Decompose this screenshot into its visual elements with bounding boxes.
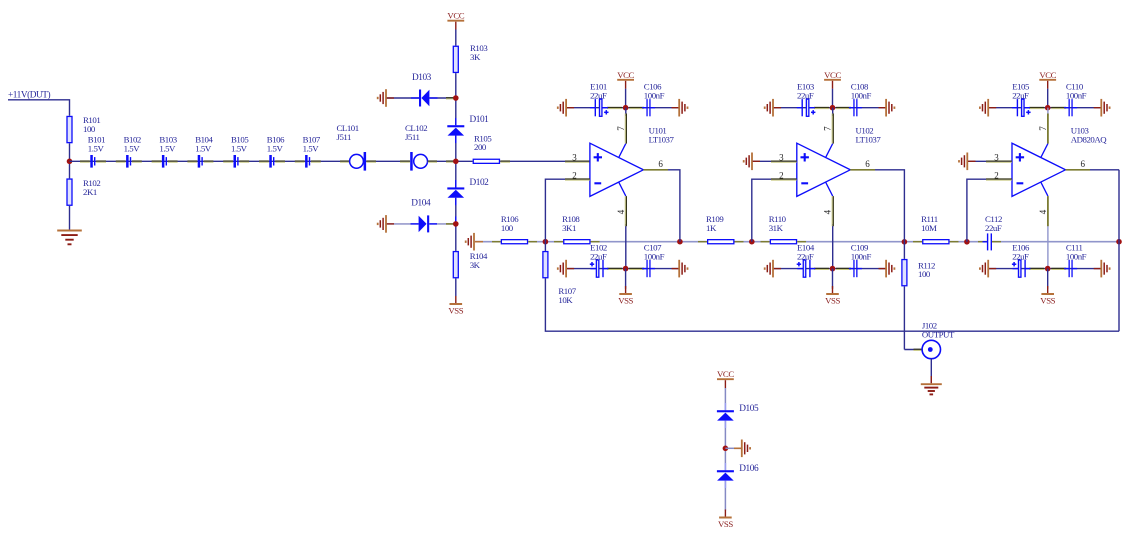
capacitor C109 100nF <box>849 260 862 277</box>
svg-text:VCC: VCC <box>824 70 841 80</box>
resistor R104 3K <box>453 252 458 278</box>
capacitor E101 22uF (electrolytic) <box>590 99 609 116</box>
label R107 <box>558 286 576 305</box>
VSS power symbol stage 1 <box>618 286 633 305</box>
svg-text:7: 7 <box>1038 126 1048 131</box>
ground (earth) left of E104 <box>765 260 773 278</box>
node U102 output / R112 <box>902 239 908 245</box>
connector J102 OUTPUT <box>922 340 940 358</box>
wire R111 to C112 <box>950 241 988 243</box>
label E106 <box>1012 243 1030 262</box>
ground (earth) left of E102 <box>558 260 566 278</box>
node U102 pin2 <box>749 239 755 245</box>
resistor R101 100 <box>67 116 72 142</box>
svg-text:D101: D101 <box>470 115 490 125</box>
svg-text:7: 7 <box>823 126 833 131</box>
svg-text:VSS: VSS <box>718 519 733 529</box>
wire R104 to VSS <box>455 278 457 296</box>
label R108 <box>562 214 580 233</box>
wire R101 to R102 <box>69 143 71 178</box>
resistor R108 3K1 <box>564 240 590 244</box>
wire U pin 4 to VSS node stage 2 <box>832 224 834 269</box>
svg-text:D106: D106 <box>739 464 759 474</box>
svg-text:VCC: VCC <box>617 70 634 80</box>
label E101 <box>590 82 607 101</box>
wire ground to D104 <box>387 223 419 225</box>
resistor R110 31K <box>770 240 796 244</box>
node U101 pin2 / R107 <box>543 239 549 245</box>
label CL101 <box>337 123 359 142</box>
current regulator diode CL102 J511 <box>410 152 427 171</box>
ground (earth) left of E106 <box>980 260 988 278</box>
svg-text:22uF: 22uF <box>985 223 1002 233</box>
label R111 <box>921 214 938 233</box>
wire U102 pin 2 <box>752 179 797 242</box>
diode D101 <box>447 125 464 135</box>
U102 pin 4 <box>826 182 833 196</box>
node D104/D102/R104 <box>453 221 459 227</box>
capacitor C108 100nF <box>849 99 862 116</box>
capacitor E102 22uF (electrolytic) <box>590 260 609 277</box>
label R101 <box>83 115 100 134</box>
ground (earth) left of D104 <box>378 215 386 233</box>
battery B103 1.5V <box>162 155 167 168</box>
wire U102 output <box>850 170 904 242</box>
ground below R102 <box>57 231 82 245</box>
wire U103 pin 2 <box>967 179 1012 242</box>
svg-text:VSS: VSS <box>825 295 840 305</box>
ground (earth) left of E101 <box>558 99 566 117</box>
wire R106 to R108 <box>528 241 563 243</box>
diode D106 <box>717 470 734 480</box>
VCC power symbol stage 2 <box>824 70 841 89</box>
wire ground to U102 pin 3 <box>753 160 797 162</box>
wire feedback vertical right <box>1118 170 1120 331</box>
wire R107 feedback bottom <box>545 278 1119 331</box>
label C108 <box>851 82 872 101</box>
wire ground to U103 pin 3 <box>968 160 1012 162</box>
label R109 <box>706 214 724 233</box>
label B107 <box>303 135 321 154</box>
svg-text:VSS: VSS <box>1040 295 1055 305</box>
VSS power symbol below R104 <box>448 296 463 315</box>
svg-text:AD820AQ: AD820AQ <box>1071 134 1108 144</box>
svg-text:1.5V: 1.5V <box>195 144 212 154</box>
wire to J102 pin <box>904 349 922 351</box>
node A main clamp <box>453 159 459 165</box>
ground (earth) right of C107 <box>679 260 687 278</box>
wire node to VSS stage 3 <box>1047 269 1049 289</box>
ground (earth) right of C108 <box>886 99 894 117</box>
wire D102 to R104 <box>455 198 457 251</box>
wire decoupling row top stage 1 <box>566 107 679 109</box>
svg-text:100: 100 <box>83 124 96 134</box>
VCC power symbol stage 3 <box>1039 70 1056 89</box>
wire decoupling row bottom stage 2 <box>773 268 886 270</box>
resistor R109 1K <box>708 240 734 244</box>
wire D105 to D106 <box>724 421 726 471</box>
label B102 <box>124 135 141 154</box>
node feedback right <box>1116 239 1122 245</box>
wire R110 to R111 <box>797 241 922 243</box>
svg-text:1.5V: 1.5V <box>159 144 176 154</box>
wire U101 pin 2 feedback <box>545 179 590 242</box>
svg-text:+11V(DUT): +11V(DUT) <box>8 90 51 101</box>
svg-text:OUTPUT: OUTPUT <box>922 329 955 339</box>
capacitor C106 100nF <box>642 99 655 116</box>
svg-text:22uF: 22uF <box>797 91 814 101</box>
wire decoupling row bottom stage 1 <box>566 268 679 270</box>
wire U103 output <box>1066 169 1120 171</box>
ground (earth) right of C106 <box>679 99 687 117</box>
capacitor C107 100nF <box>642 260 655 277</box>
label B104 <box>195 135 213 154</box>
svg-text:4: 4 <box>616 209 626 214</box>
svg-text:1.5V: 1.5V <box>231 144 248 154</box>
svg-text:D102: D102 <box>470 178 490 188</box>
wire D103 to node <box>429 97 455 99</box>
U103 pin 7 <box>1041 144 1048 158</box>
diode D103 <box>419 90 429 107</box>
battery B104 1.5V <box>198 155 203 168</box>
wire node to ground stub <box>725 447 741 449</box>
svg-text:1K: 1K <box>706 223 717 233</box>
svg-text:6: 6 <box>658 159 663 169</box>
svg-text:200: 200 <box>474 142 487 152</box>
label J102 <box>922 321 955 340</box>
ground (earth) right of C109 <box>886 260 894 278</box>
capacitor C111 100nF <box>1064 260 1077 277</box>
node R103/D103/D101 <box>453 95 459 101</box>
svg-text:1.5V: 1.5V <box>267 144 284 154</box>
svg-text:10K: 10K <box>558 295 573 305</box>
capacitor E106 22uF (electrolytic) <box>1012 260 1031 277</box>
svg-text:100nF: 100nF <box>1066 252 1087 262</box>
diode D104 <box>419 215 430 232</box>
ground (earth) left of E105 <box>980 99 988 117</box>
label U102 LT1037 <box>856 126 882 145</box>
wire U pin 4 to VSS node stage 1 <box>625 224 627 269</box>
VCC power symbol stage 1 <box>617 70 634 89</box>
wire node to VSS stage 1 <box>625 269 627 289</box>
wire U pin 4 to VSS node stage 3 <box>1047 224 1049 269</box>
wire ground to R106 <box>475 241 501 243</box>
op-amp U101 LT1037 <box>590 143 644 196</box>
label R103 <box>470 43 488 62</box>
wire ground to D103 <box>387 97 419 99</box>
svg-text:10M: 10M <box>921 223 937 233</box>
label R110 <box>769 214 787 233</box>
node VCC stage 3 <box>1045 105 1051 111</box>
U103 pin 4 <box>1041 182 1048 196</box>
svg-text:VCC: VCC <box>447 11 464 21</box>
wire D106 to VSS <box>724 481 726 511</box>
wire decoupling row top stage 3 <box>988 107 1101 109</box>
svg-text:31K: 31K <box>769 223 784 233</box>
ground (earth) at U102 pin 3 <box>744 153 752 171</box>
resistor R106 100 <box>501 240 527 244</box>
svg-text:4: 4 <box>1038 209 1048 214</box>
battery B102 1.5V <box>126 155 131 168</box>
wire VCC to node stage 2 <box>832 89 834 108</box>
svg-text:LT1037: LT1037 <box>649 134 675 144</box>
label B105 <box>231 135 249 154</box>
wire R109 to R110 <box>735 241 770 243</box>
VSS power symbol below D106 <box>718 510 733 529</box>
label E102 <box>590 243 607 262</box>
svg-text:J511: J511 <box>405 132 420 142</box>
wire C112 to feedback corner <box>992 241 1119 243</box>
battery B101 1.5V <box>90 155 95 168</box>
label U101 LT1037 <box>649 126 675 145</box>
node input divider <box>67 159 73 165</box>
resistor R112 100 <box>902 260 907 286</box>
svg-text:J511: J511 <box>337 132 352 142</box>
ground (earth) right of D105/D106 node <box>742 440 750 458</box>
node VCC stage 2 <box>830 105 836 111</box>
wire R112 to J102 <box>903 286 905 349</box>
svg-text:LT1037: LT1037 <box>856 134 882 144</box>
capacitor E105 22uF (electrolytic) <box>1012 99 1031 116</box>
node D105/D106 <box>723 446 729 452</box>
label R104 <box>470 251 488 270</box>
wire decoupling row bottom stage 3 <box>988 268 1101 270</box>
wire node to VSS stage 2 <box>832 269 834 289</box>
wire CL102 to node A <box>428 160 473 162</box>
svg-text:6: 6 <box>865 159 870 169</box>
ground (earth) right of C110 <box>1101 99 1109 117</box>
node U101 output <box>677 239 683 245</box>
resistor R103 3K <box>453 46 458 72</box>
capacitor E104 22uF (electrolytic) <box>797 260 816 277</box>
wire VCC node to U pin 7 stage 3 <box>1047 108 1049 116</box>
capacitor E103 22uF (electrolytic) <box>797 99 816 116</box>
svg-text:3K: 3K <box>470 260 481 270</box>
VSS power symbol stage 3 <box>1040 286 1055 305</box>
svg-text:22uF: 22uF <box>1012 91 1029 101</box>
svg-text:D104: D104 <box>411 198 431 208</box>
wire +11V input <box>8 100 70 116</box>
diode D102 <box>447 187 464 197</box>
resistor R111 10M <box>923 240 949 244</box>
svg-text:1.5V: 1.5V <box>88 144 105 154</box>
svg-text:100nF: 100nF <box>644 91 665 101</box>
ground below J102 <box>921 384 942 394</box>
VSS power symbol stage 2 <box>825 286 840 305</box>
svg-text:100: 100 <box>501 223 514 233</box>
svg-text:22uF: 22uF <box>1012 252 1029 262</box>
ground (earth) at U103 pin 3 <box>959 153 967 171</box>
label U103 AD820AQ <box>1071 126 1108 145</box>
label R102 <box>83 178 100 197</box>
label E104 <box>797 243 815 262</box>
wire decoupling row top stage 2 <box>773 107 886 109</box>
wire R105 to U101 pin 3 <box>500 160 590 162</box>
wire node to R112 <box>903 242 905 259</box>
wire R108 to R109 <box>591 241 707 243</box>
svg-text:3K1: 3K1 <box>562 223 576 233</box>
battery B106 1.5V <box>269 155 274 168</box>
label C112 <box>985 214 1002 233</box>
svg-text:D105: D105 <box>739 404 759 414</box>
svg-text:100nF: 100nF <box>644 252 665 262</box>
svg-text:1.5V: 1.5V <box>303 144 320 154</box>
node VCC stage 1 <box>623 105 629 111</box>
svg-text:6: 6 <box>1081 159 1086 169</box>
wire VCC to node stage 3 <box>1047 89 1049 108</box>
ground (earth) left of E103 <box>765 99 773 117</box>
wire VCC to D105 <box>724 388 726 410</box>
battery B107 1.5V <box>305 155 310 168</box>
capacitor C110 100nF <box>1064 99 1077 116</box>
label B106 <box>267 135 285 154</box>
resistor R107 10K <box>543 252 548 278</box>
svg-text:22uF: 22uF <box>797 252 814 262</box>
battery B105 1.5V <box>234 155 239 168</box>
wire VCC node to U pin 7 stage 1 <box>625 108 627 116</box>
svg-text:2K1: 2K1 <box>83 187 97 197</box>
svg-text:100nF: 100nF <box>1066 91 1087 101</box>
wire U101 output <box>643 170 680 242</box>
resistor R105 200 <box>473 159 499 163</box>
svg-text:1.5V: 1.5V <box>124 144 141 154</box>
capacitor C112 22uF <box>983 233 997 250</box>
wire R102 to ground <box>69 206 71 230</box>
svg-text:7: 7 <box>616 126 626 131</box>
diode D105 <box>717 410 734 420</box>
wire D101 to D102 <box>455 136 457 188</box>
svg-text:VSS: VSS <box>618 295 633 305</box>
current regulator diode CL101 J511 <box>350 152 367 171</box>
svg-text:D103: D103 <box>412 73 432 83</box>
U101 pin 7 <box>619 144 626 158</box>
VCC power symbol above R103 <box>447 11 464 30</box>
label C106 <box>644 82 665 101</box>
svg-text:22uF: 22uF <box>590 91 607 101</box>
node VSS row stage 1 <box>623 266 629 272</box>
ground (earth) right of C111 <box>1101 260 1109 278</box>
label R112 <box>918 260 935 279</box>
svg-text:3K: 3K <box>470 52 481 62</box>
ground (earth) left of R106 <box>466 233 474 251</box>
op-amp U102 LT1037 <box>797 143 851 196</box>
label B101 <box>88 135 105 154</box>
op-amp U103 AD820AQ <box>1012 143 1066 196</box>
label B103 <box>159 135 177 154</box>
wire VCC to R103 <box>455 30 457 46</box>
VCC power symbol above D105 <box>717 369 734 388</box>
svg-text:100: 100 <box>918 269 931 279</box>
svg-text:VSS: VSS <box>448 305 463 315</box>
svg-text:100nF: 100nF <box>851 91 872 101</box>
node VSS row stage 2 <box>830 266 836 272</box>
label CL102 <box>405 123 427 142</box>
label C111 <box>1066 243 1087 262</box>
wire CL101 to CL102 <box>366 160 410 162</box>
label C109 <box>851 243 872 262</box>
U102 pin 7 <box>826 144 833 158</box>
label E105 <box>1012 82 1030 101</box>
label C107 <box>644 243 665 262</box>
wire D104 to node <box>429 223 456 225</box>
ground (earth) left of D103 <box>378 89 386 107</box>
svg-text:4: 4 <box>823 209 833 214</box>
label R106 <box>501 214 519 233</box>
node U103 pin2 / C112 <box>964 239 970 245</box>
label C110 <box>1066 82 1087 101</box>
wire R103 to D101 <box>455 73 457 125</box>
svg-text:100nF: 100nF <box>851 252 872 262</box>
wire VCC to node stage 1 <box>625 89 627 108</box>
resistor R102 2K1 <box>67 179 72 205</box>
wire J102 to ground <box>930 359 932 384</box>
node VSS row stage 3 <box>1045 266 1051 272</box>
svg-text:VCC: VCC <box>1039 70 1056 80</box>
svg-text:VCC: VCC <box>717 369 734 379</box>
U101 pin 4 <box>619 182 626 196</box>
label R105 <box>474 133 492 152</box>
wire VCC node to U pin 7 stage 2 <box>832 108 834 116</box>
label E103 <box>797 82 815 101</box>
svg-text:22uF: 22uF <box>590 252 607 262</box>
wire node to R107 <box>544 242 546 251</box>
wire battery rail <box>70 160 350 162</box>
